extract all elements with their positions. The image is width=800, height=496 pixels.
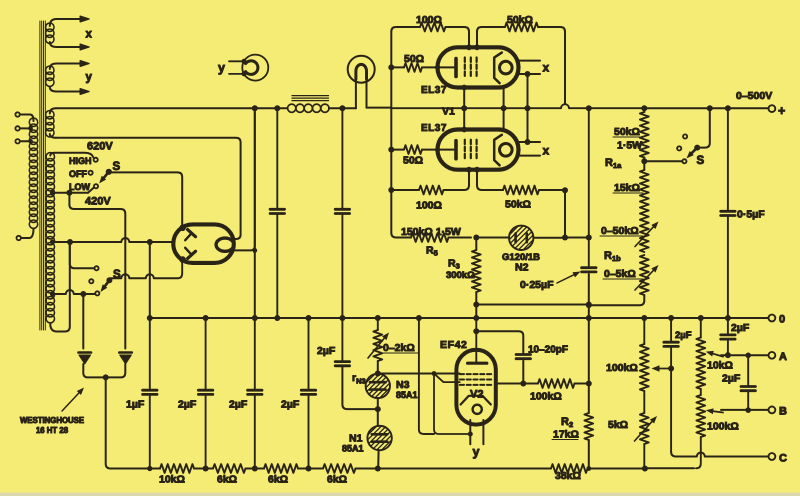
pot 10k wiper from A xyxy=(713,354,723,357)
wire N1 to divider xyxy=(377,450,379,468)
wire winding-bottom riser junction xyxy=(147,239,153,245)
svg-text:EF42: EF42 xyxy=(440,339,468,351)
svg-text:2µF: 2µF xyxy=(229,399,248,411)
trimmer capacitor 10-20pF xyxy=(516,353,530,356)
switch S2 pivot xyxy=(106,277,112,283)
svg-text:0–500V: 0–500V xyxy=(736,90,772,102)
resistor 50k upper xyxy=(477,23,538,48)
junction 0V rail cap3 xyxy=(306,315,312,321)
junction 0V rail R3/anode xyxy=(473,315,479,321)
neon stabiliser N1 xyxy=(367,426,391,450)
svg-text:15kΩ: 15kΩ xyxy=(614,182,640,194)
tap junction lower winding xyxy=(50,292,55,297)
rectifier cathode/heater ring xyxy=(216,238,234,251)
terminal A output xyxy=(769,352,776,359)
V1a cathode to rail xyxy=(503,88,505,109)
primary terminal 1 xyxy=(15,112,30,116)
bleeder wire rectifier to 0V xyxy=(254,108,256,318)
junction 0V rail R2 lead xyxy=(586,315,592,321)
pot 10k coarse xyxy=(696,318,705,389)
junction g3 tie xyxy=(432,371,437,376)
arrow westinghouse pointer xyxy=(62,393,79,411)
HT rail lamp to EL37 stage xyxy=(367,107,392,110)
smoothing capacitor second xyxy=(335,108,349,318)
svg-text:0·5µF: 0·5µF xyxy=(737,209,765,221)
divider wire f xyxy=(646,467,695,469)
svg-text:WESTINGHOUSE: WESTINGHOUSE xyxy=(20,416,84,425)
svg-text:EL37: EL37 xyxy=(421,85,447,96)
wire 420V tap down to metal rectifier D2 xyxy=(69,193,125,349)
0V rail xyxy=(150,317,769,319)
feedback wire anode to trimmer xyxy=(476,331,523,352)
svg-text:10kΩ: 10kΩ xyxy=(159,474,185,486)
resistor 10k divider xyxy=(160,464,194,473)
svg-text:0–2kΩ: 0–2kΩ xyxy=(383,342,415,354)
wire S1 to rectifier anode 1 xyxy=(109,172,182,226)
rheostat 5k xyxy=(635,395,658,469)
arrow y lead bottom xyxy=(80,89,89,95)
junction rail 0.5uF xyxy=(725,105,731,111)
svg-text:10kΩ: 10kΩ xyxy=(707,360,733,372)
y input jack xyxy=(229,55,268,81)
junction cathode tie xyxy=(468,432,473,437)
svg-text:S: S xyxy=(697,155,705,167)
primary terminal 4 xyxy=(17,236,30,240)
left bus of V1 stage lower xyxy=(391,108,402,237)
junction 0V rail cap1 xyxy=(203,315,209,321)
wire lower tap to S2 contact 3 xyxy=(52,290,95,297)
junction 0V rail pot chain xyxy=(641,315,647,321)
junction cross lead on timing row xyxy=(562,235,568,241)
transformer winding to y-plates xyxy=(46,64,80,92)
resistor R3 300k xyxy=(472,238,481,319)
V1b grid1 from rail xyxy=(461,108,467,132)
metal rectifier D2 xyxy=(108,353,132,378)
label 50k underlined xyxy=(613,126,643,138)
V1a anode ring xyxy=(500,61,513,74)
wire S3 pivot to rail xyxy=(697,108,710,147)
label 0-50k underlined xyxy=(600,225,643,237)
switch S2 contact 3 xyxy=(95,291,99,295)
svg-text:x: x xyxy=(86,29,93,41)
svg-text:2µF: 2µF xyxy=(675,330,692,341)
svg-text:x: x xyxy=(543,61,550,75)
rheostat 0-5k R1b lower xyxy=(635,255,659,295)
svg-text:100Ω: 100Ω xyxy=(416,14,442,26)
scan edge shading bottom xyxy=(0,493,800,496)
resistor 6k divider b xyxy=(264,464,298,473)
junction rail x342 xyxy=(339,105,345,111)
terminal C output xyxy=(769,453,776,460)
V2 anode lead to 0V rail xyxy=(473,318,479,363)
svg-text:V1: V1 xyxy=(442,106,455,118)
junction 0V rail neon chain xyxy=(375,315,381,321)
junction rail grid1 upper xyxy=(461,105,467,111)
junction rail switch lead xyxy=(707,105,713,111)
capacitor 2uF c xyxy=(301,318,315,469)
svg-text:420V: 420V xyxy=(85,196,111,208)
metal rectifier D1 xyxy=(79,353,104,378)
pot 100k wiper xyxy=(652,365,675,371)
switch S1 arm xyxy=(104,172,109,178)
rectifier tube V3 envelope xyxy=(173,224,234,263)
svg-text:38kΩ: 38kΩ xyxy=(555,470,581,482)
wire lower tap down to metal rectifier D1 xyxy=(82,294,84,349)
resistor 15k xyxy=(640,170,649,212)
junction bus row lower xyxy=(388,187,394,193)
rectifier anode 1 junction xyxy=(179,225,186,232)
rectifier diode plates 1 xyxy=(185,230,195,241)
HT rail to + terminal xyxy=(644,107,768,109)
V2 anode bar xyxy=(468,362,487,365)
svg-text:A: A xyxy=(779,351,787,363)
arrow x lead top xyxy=(80,16,89,22)
resistor 6k divider c xyxy=(323,464,356,473)
svg-text:17kΩ: 17kΩ xyxy=(553,429,579,441)
V1a top pin dots xyxy=(466,44,472,50)
V1b left pin dot xyxy=(435,147,440,152)
svg-text:16 HT 28: 16 HT 28 xyxy=(36,426,69,435)
svg-text:EL37: EL37 xyxy=(421,123,447,134)
pot 100k wiper from B xyxy=(713,411,723,412)
resistor R1a 50k 1.5W xyxy=(640,108,649,170)
primary tap junction 3 xyxy=(28,139,33,144)
timing loop bottom wire xyxy=(476,304,589,306)
V1b anode shield xyxy=(494,135,502,166)
svg-text:1µF: 1µF xyxy=(126,399,145,411)
svg-text:V2: V2 xyxy=(470,389,483,401)
junction rail cross-coupling xyxy=(525,105,531,111)
junction trimmer screen xyxy=(520,381,526,387)
resistor 50R upper grid stopper xyxy=(391,63,454,72)
terminal 0 output xyxy=(769,315,776,322)
junction bus grid-stopper upper xyxy=(388,64,394,70)
divider wire d xyxy=(356,466,552,472)
arrow x lead bottom xyxy=(80,44,89,50)
wire S2 contact1 to centre tap riser xyxy=(70,242,95,268)
svg-text:50Ω: 50Ω xyxy=(404,53,424,65)
capacitor 0.25uF lower lead xyxy=(588,274,590,318)
junction R3 bottom loop xyxy=(473,302,479,308)
pot 100k fine xyxy=(640,318,649,395)
junction rail cap x588 xyxy=(586,105,592,111)
primary terminal 2 xyxy=(15,126,30,130)
wire screen to 100k xyxy=(496,383,538,385)
svg-text:y: y xyxy=(473,445,480,459)
V2 y output stub a xyxy=(469,420,471,444)
divider row wire left xyxy=(150,468,160,470)
junction B 2uF xyxy=(745,407,751,413)
svg-text:2µF: 2µF xyxy=(731,322,750,334)
rectifier diode plates 2 xyxy=(185,248,195,259)
V1b cathode from rail xyxy=(503,108,505,129)
resistor 50R lower grid stopper xyxy=(391,145,454,154)
switch S3 contact a xyxy=(682,159,686,163)
wire HT centre tap to rectifier V3 xyxy=(52,238,173,242)
arrow y lead top xyxy=(80,61,89,67)
wire cathode to 0V rail xyxy=(419,318,434,434)
svg-text:1·5W: 1·5W xyxy=(617,140,642,152)
V1a left pin dot xyxy=(435,65,440,70)
wire rectifier cathode to HT rail xyxy=(233,108,255,250)
switch S2 arm xyxy=(105,280,109,286)
V2 grid dashes xyxy=(460,374,493,385)
junction 0V rail pot chain 2 xyxy=(698,315,704,321)
svg-text:10–20pF: 10–20pF xyxy=(528,345,568,356)
svg-text:100kΩ: 100kΩ xyxy=(606,362,638,374)
svg-text:100Ω: 100Ω xyxy=(416,200,442,212)
V2 heater ring xyxy=(473,405,482,414)
resistor 6k divider a xyxy=(213,464,246,473)
resistor 100R upper xyxy=(407,23,446,32)
contact HIGH xyxy=(94,158,98,162)
junction rail R1a xyxy=(641,105,647,111)
ballast lamp LP1 xyxy=(348,56,375,109)
junction rail x277 xyxy=(274,105,280,111)
x output plate wire upper-a xyxy=(519,60,541,62)
wire 50k upper to cross lead xyxy=(538,27,565,104)
wire N2 to cap lead xyxy=(533,237,588,239)
svg-text:5kΩ: 5kΩ xyxy=(608,419,628,431)
trimmer lower lead xyxy=(522,361,524,384)
svg-text:6kΩ: 6kΩ xyxy=(217,474,237,486)
switch S2 contact 2 (off) xyxy=(89,279,93,283)
junction divider 1uF xyxy=(147,466,152,471)
junction 0V rail cap res xyxy=(274,315,280,321)
capacitor 2uF a xyxy=(198,318,212,469)
svg-text:HIGH: HIGH xyxy=(69,156,92,166)
V1a grid dashes xyxy=(465,58,477,79)
neon stabiliser N2 xyxy=(509,226,533,250)
switch S3 contact b xyxy=(677,146,681,150)
junction 0.25uF bottom xyxy=(586,302,592,308)
V1b cathode bar xyxy=(454,141,458,159)
wire R1b bottom return xyxy=(589,295,645,305)
junction rectifier join xyxy=(103,374,109,380)
capacitor 2uF d bypass xyxy=(335,318,378,409)
cross lead down to timing row xyxy=(564,190,566,237)
junction 0V rail A coupling xyxy=(725,315,731,321)
V1b grid dashes xyxy=(465,140,477,161)
switch S3 arm xyxy=(692,148,697,153)
V1a anode shield xyxy=(494,53,502,84)
divider wire b xyxy=(246,466,265,472)
svg-text:2µF: 2µF xyxy=(722,373,741,385)
EF42 V2 envelope xyxy=(456,350,495,425)
capacitor 0.5uF xyxy=(721,108,735,318)
V1b anode ring xyxy=(500,144,513,157)
divider wire xyxy=(194,466,213,472)
capacitor 0.25uF lead xyxy=(588,108,590,265)
svg-text:2µF: 2µF xyxy=(281,399,300,411)
wire 100R to V1a top xyxy=(446,27,470,47)
svg-text:85A1: 85A1 xyxy=(342,444,364,454)
label 17k underlined xyxy=(552,429,579,441)
V1a cathode bar xyxy=(454,59,458,77)
HT rail choke to lamp xyxy=(329,107,356,109)
svg-text:2µF: 2µF xyxy=(178,399,197,411)
wire R5 to neon N2 xyxy=(476,237,509,239)
junction rail cathode upper xyxy=(501,105,507,111)
junction grid pickoff xyxy=(375,371,381,377)
arrow 0.25uF pointer xyxy=(557,275,574,283)
junction centre-tap riser xyxy=(67,239,73,245)
tap 420V junction on winding xyxy=(50,190,55,195)
junction R1b return xyxy=(586,302,592,308)
coupling capacitor 2uF A xyxy=(721,318,735,355)
coupling capacitor 2uF AB xyxy=(741,355,755,410)
wire 0-2k to N3 xyxy=(377,361,379,374)
junction 0V rail cap2 xyxy=(252,315,258,321)
divider wire e xyxy=(586,466,645,471)
transformer rectifier-heater winding xyxy=(46,108,56,138)
junction cathode wire on bleeder xyxy=(252,248,257,253)
svg-text:2µF: 2µF xyxy=(317,345,336,357)
capacitor 2uF b xyxy=(248,318,262,469)
svg-text:LOW: LOW xyxy=(69,182,90,192)
primary tap junction 2 xyxy=(28,126,33,131)
svg-text:N2: N2 xyxy=(515,262,529,274)
rectifier anode 2 junction xyxy=(179,256,186,263)
neon stabiliser N3 xyxy=(366,374,390,398)
resistor 50k lower xyxy=(477,170,565,195)
V2 cathode tent xyxy=(461,396,491,405)
svg-text:+: + xyxy=(778,104,785,118)
HT+ rail from transformer to choke xyxy=(56,107,288,109)
terminal B output xyxy=(769,407,776,414)
wire 100k to R2 lead xyxy=(575,383,589,385)
switch S1 pivot xyxy=(106,169,112,175)
svg-text:100kΩ: 100kΩ xyxy=(707,421,739,433)
x output plate wire lower-a xyxy=(519,139,541,145)
switch S3 contact c xyxy=(683,134,687,138)
HT rail through V1 stage xyxy=(391,104,644,108)
junction 50k lower right xyxy=(562,187,568,193)
svg-text:50Ω: 50Ω xyxy=(403,155,423,167)
x output plate wire lower-b xyxy=(519,155,541,157)
resistor 38k xyxy=(551,464,588,473)
junction rail x253 xyxy=(252,105,258,111)
svg-text:y: y xyxy=(218,61,225,75)
reservoir capacitor 8uF first xyxy=(270,108,284,318)
coupling capacitor 2uF C xyxy=(664,318,678,369)
junction N3-N1 bypass xyxy=(375,406,381,412)
contact LOW xyxy=(94,184,98,188)
svg-text:OFF: OFF xyxy=(69,169,87,179)
transformer T1 laminated core xyxy=(40,21,45,330)
svg-text:0–5kΩ: 0–5kΩ xyxy=(604,268,636,280)
svg-text:S: S xyxy=(113,161,121,173)
switch S2 contact 1 xyxy=(94,266,98,270)
svg-text:C: C xyxy=(779,453,787,465)
suppressor tie lead xyxy=(434,374,470,435)
wire grid V2 from pickoff xyxy=(378,373,460,375)
svg-text:100kΩ: 100kΩ xyxy=(530,391,562,403)
junction 0V rail bypass xyxy=(339,315,345,321)
junction R5 R3 xyxy=(473,235,479,241)
smoothing choke L1 xyxy=(288,96,329,113)
junction A 2uF a xyxy=(725,352,731,358)
transformer HT secondary winding xyxy=(46,153,93,332)
junction shorting switch xyxy=(641,158,647,164)
junction divider 5k xyxy=(642,466,648,472)
svg-text:x: x xyxy=(543,144,550,158)
rheostat 0-2k xyxy=(368,318,389,361)
svg-text:85A1: 85A1 xyxy=(396,390,418,400)
capacitor 1uF xyxy=(143,318,157,469)
wire A output xyxy=(721,354,769,356)
wire B output xyxy=(721,409,769,411)
wire S2 to rectifier anode 2 xyxy=(111,274,178,278)
x output plate wire upper-b xyxy=(519,71,541,77)
svg-text:300kΩ: 300kΩ xyxy=(446,270,475,281)
wire R2 lead upper xyxy=(588,318,590,413)
svg-text:0–50kΩ: 0–50kΩ xyxy=(601,225,639,237)
capacitor 0.25uF xyxy=(582,266,596,269)
svg-text:50kΩ: 50kΩ xyxy=(507,14,533,26)
svg-text:0: 0 xyxy=(779,314,785,326)
V2 y output stub b xyxy=(482,420,484,444)
wire C output xyxy=(671,369,768,457)
switch S3 pivot dot xyxy=(694,145,700,151)
EL37 V1a envelope xyxy=(438,47,519,87)
transformer winding to x-plates xyxy=(46,19,80,47)
resistor 100R lower xyxy=(391,170,469,195)
svg-text:50kΩ: 50kΩ xyxy=(614,126,640,138)
wire R2 to divider xyxy=(588,440,590,469)
label 15k underlined xyxy=(613,182,643,194)
svg-text:y: y xyxy=(86,72,93,84)
junction R2 lead xyxy=(586,381,592,387)
junction 0V rail C coupling xyxy=(668,315,674,321)
contact OFF xyxy=(89,171,93,175)
EL37 V1b envelope xyxy=(438,130,519,170)
cross coupling lead x527 xyxy=(527,74,529,142)
wire rectifier join to divider xyxy=(106,377,150,468)
V1a grid1 to rail xyxy=(461,85,467,109)
svg-text:620V: 620V xyxy=(87,141,113,153)
tap junction mid winding xyxy=(50,240,55,245)
wire centre-tap ground riser xyxy=(149,242,151,318)
svg-text:50kΩ: 50kΩ xyxy=(505,199,531,211)
left bus of V1 stage xyxy=(391,27,407,108)
label 0-2k underlined xyxy=(382,342,419,354)
svg-text:B: B xyxy=(779,406,787,418)
wire heater return from transformer xyxy=(56,138,241,239)
wire 420V tap to LOW contact xyxy=(52,188,93,196)
wire N3 to N1 xyxy=(377,398,379,426)
junction timing row x588 xyxy=(586,235,592,241)
divider wire c xyxy=(298,466,323,472)
transformer primary winding xyxy=(29,115,38,239)
junction 0V rail left end xyxy=(147,315,153,321)
svg-text:0·25µF: 0·25µF xyxy=(520,279,554,291)
pot 100k coarse xyxy=(696,389,705,468)
junction bus grid-stopper lower xyxy=(388,147,394,153)
V1b bottom pin dots xyxy=(466,167,472,173)
rheostat 0-50k R1b upper xyxy=(635,212,659,252)
svg-text:6kΩ: 6kΩ xyxy=(268,474,288,486)
junction 0V rail V2 cathode xyxy=(416,315,422,321)
wire shorting switch xyxy=(644,160,682,162)
resistor 100k screen xyxy=(538,379,575,388)
resistor R2 17k xyxy=(584,413,593,440)
label 0-5k underlined xyxy=(603,268,643,280)
primary terminal 3 xyxy=(15,139,30,143)
resistor R5 150k xyxy=(402,233,471,242)
svg-text:150kΩ 1·5W: 150kΩ 1·5W xyxy=(401,226,461,238)
terminal + output xyxy=(769,105,776,112)
